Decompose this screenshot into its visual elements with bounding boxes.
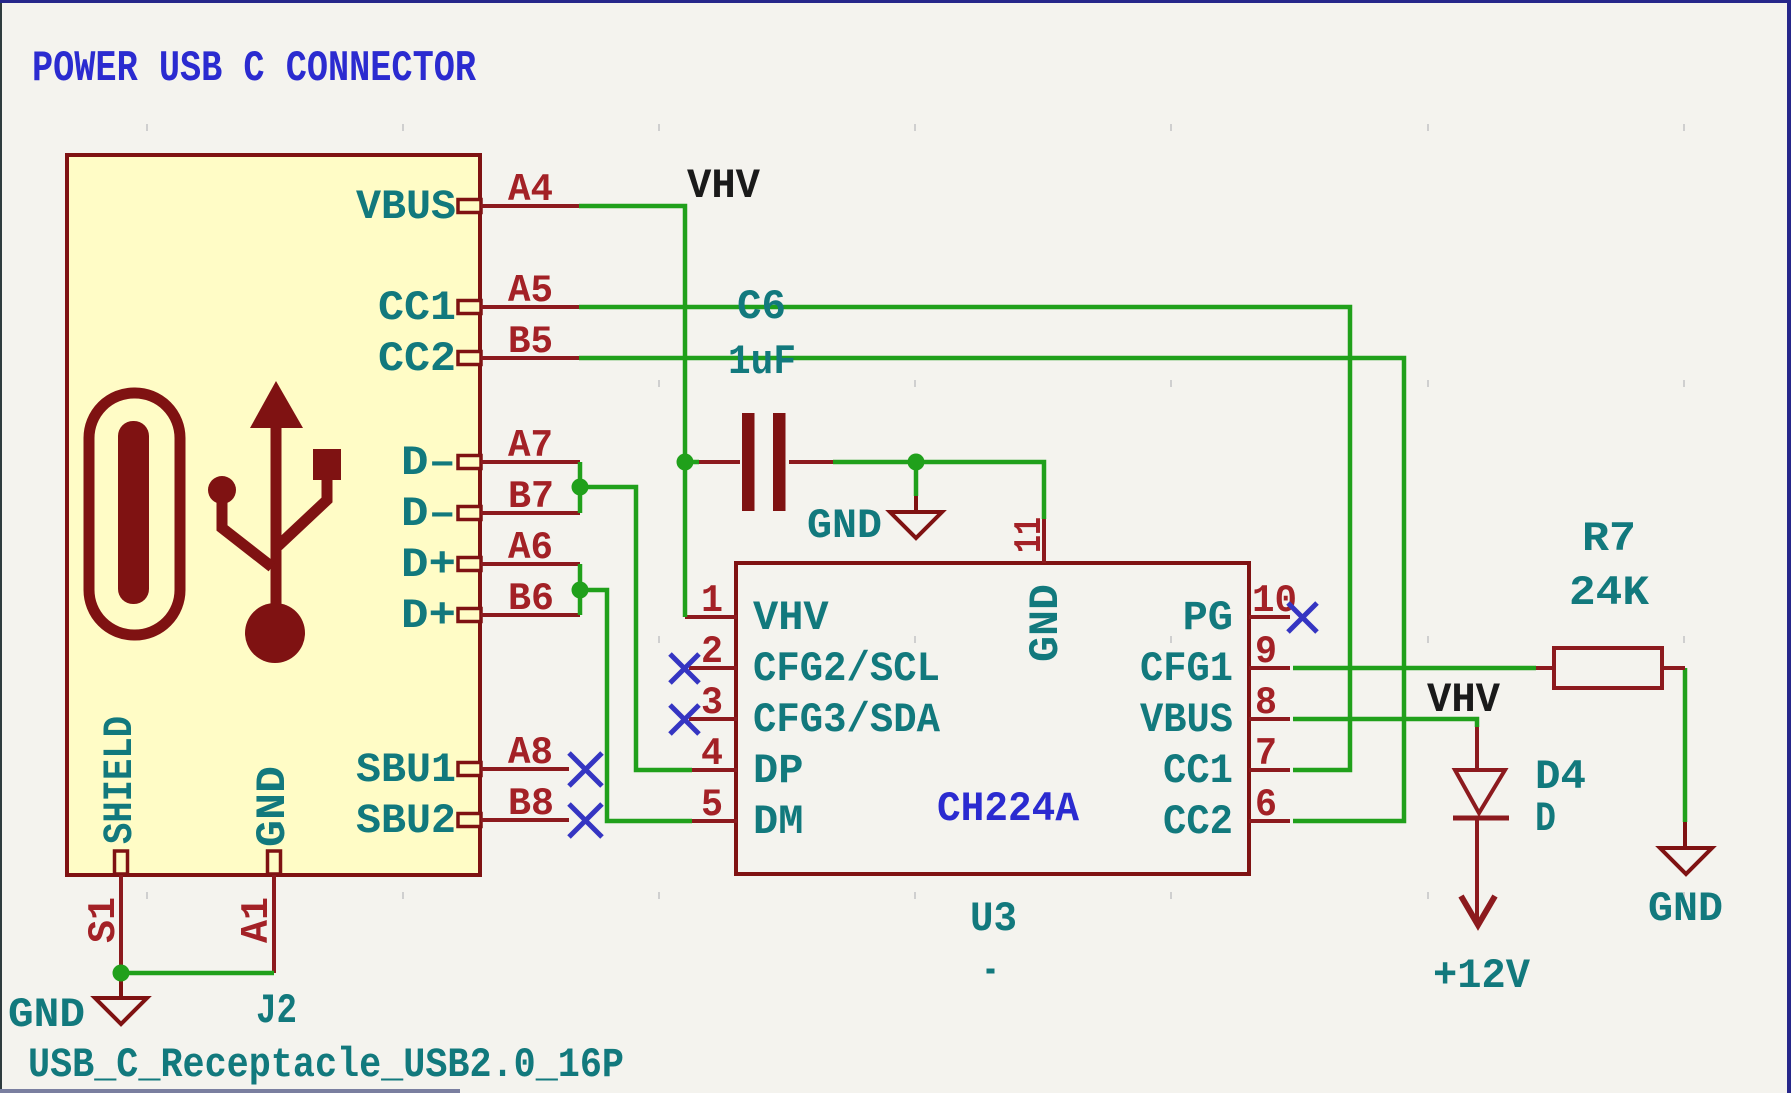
svg-text:VBUS: VBUS xyxy=(356,183,456,231)
svg-text:10: 10 xyxy=(1252,579,1297,623)
J2 pin A7 D- xyxy=(481,460,580,464)
no-connect X SBU2 xyxy=(569,804,602,837)
svg-text:CC1: CC1 xyxy=(378,284,456,332)
no-connect X pin3 xyxy=(670,705,699,734)
svg-text:A5: A5 xyxy=(508,269,553,313)
USB logo xyxy=(89,381,341,663)
U3 pin 1 VHV xyxy=(685,615,737,619)
grid marks xyxy=(146,124,1685,899)
svg-text:CC2: CC2 xyxy=(1163,798,1233,846)
svg-text:B7: B7 xyxy=(508,475,554,519)
capacitor C6 xyxy=(699,413,833,511)
wire D- pair link xyxy=(578,462,583,513)
sheet border right xyxy=(1787,0,1791,1093)
svg-text:C6: C6 xyxy=(737,283,786,331)
resistor R7 xyxy=(1536,648,1685,688)
U3 pin 2 CFG2/SCL xyxy=(689,666,737,670)
+12V power arrow xyxy=(1461,896,1495,925)
U3 pin 8 VBUS xyxy=(1249,717,1290,721)
svg-text:SBU2: SBU2 xyxy=(356,797,456,845)
svg-text:B6: B6 xyxy=(508,577,554,621)
J2 pin pad square B7 xyxy=(458,507,481,520)
J2 pin A6 D+ xyxy=(481,562,580,566)
svg-text:6: 6 xyxy=(1255,783,1277,827)
svg-text:D: D xyxy=(1535,795,1556,843)
svg-text:DP: DP xyxy=(753,747,803,795)
svg-text:GND: GND xyxy=(8,991,85,1039)
U3 pin 4 DP xyxy=(689,768,737,772)
J2 pin pad square A6 xyxy=(458,558,481,571)
svg-text:9: 9 xyxy=(1255,630,1277,674)
J2 pin pad square B5 xyxy=(458,352,481,365)
wire R7 to GND xyxy=(1683,668,1688,822)
J2 pin B8 SBU2 xyxy=(481,818,569,822)
svg-text:U3: U3 xyxy=(970,895,1017,943)
svg-text:GND: GND xyxy=(1022,584,1070,662)
svg-text:J2: J2 xyxy=(256,987,297,1035)
svg-text:D4: D4 xyxy=(1535,753,1586,801)
svg-text:CFG1: CFG1 xyxy=(1140,645,1233,693)
U3 pin 5 DM xyxy=(689,819,737,823)
wire VBUS pin8 to D4 xyxy=(1293,719,1477,727)
svg-text:A6: A6 xyxy=(508,526,553,570)
svg-text:A1: A1 xyxy=(235,897,279,943)
svg-text:5: 5 xyxy=(701,783,723,827)
junction dot D- xyxy=(572,479,589,496)
wire D+ pair link xyxy=(578,564,583,615)
svg-text:CFG2/SCL: CFG2/SCL xyxy=(753,645,940,693)
U3 pin 6 CC2 xyxy=(1249,819,1290,823)
J2 pin pad square S1 xyxy=(115,851,128,874)
svg-text:SBU1: SBU1 xyxy=(356,746,456,794)
svg-text:S1: S1 xyxy=(82,897,126,943)
IC U3 body xyxy=(736,563,1249,874)
ground symbol right xyxy=(1660,822,1712,874)
svg-text:CH224A: CH224A xyxy=(937,785,1080,833)
junction dot C6/GND xyxy=(908,454,925,471)
svg-text:D–: D– xyxy=(401,490,456,538)
sheet border bottom xyxy=(0,1089,460,1093)
J2 pin pad square B6 xyxy=(458,609,481,622)
U3 pin 10 PG xyxy=(1249,615,1290,619)
svg-text:CC1: CC1 xyxy=(1163,747,1233,795)
U3 pin 7 CC1 xyxy=(1249,768,1290,772)
svg-text:B5: B5 xyxy=(508,320,553,364)
svg-text:8: 8 xyxy=(1255,681,1277,725)
ground symbol at J2 shield xyxy=(95,973,147,1024)
wire VBUS A4 to VHV rail xyxy=(579,206,685,617)
svg-text:B8: B8 xyxy=(508,782,554,826)
svg-text:GND: GND xyxy=(249,766,297,847)
svg-text:POWER USB C CONNECTOR: POWER USB C CONNECTOR xyxy=(32,44,476,94)
svg-text:2: 2 xyxy=(701,630,723,674)
svg-text:24K: 24K xyxy=(1569,569,1650,617)
svg-text:7: 7 xyxy=(1255,732,1277,776)
J2 pin A5 CC1 xyxy=(481,305,579,309)
no-connect X pin10 xyxy=(1288,603,1317,632)
svg-text:11: 11 xyxy=(1008,517,1052,553)
J2 pin pad square A5 xyxy=(458,301,481,314)
svg-text:R7: R7 xyxy=(1582,515,1636,563)
svg-text:1: 1 xyxy=(701,579,723,623)
svg-text:D–: D– xyxy=(401,439,456,487)
svg-text:A7: A7 xyxy=(508,424,553,468)
svg-text:D+: D+ xyxy=(401,541,456,589)
junction dot shield gnd xyxy=(113,965,130,982)
J2 pin B6 D+ xyxy=(481,613,580,617)
svg-text:A8: A8 xyxy=(508,731,553,775)
wire C6 net right to GND and pin11 xyxy=(833,462,1044,519)
diode D4 xyxy=(1453,727,1509,922)
J2 pin A1 GND xyxy=(272,875,276,973)
J2 pin B5 CC2 xyxy=(481,356,579,360)
U3 pin 3 CFG3/SDA xyxy=(689,717,737,721)
svg-text:-: - xyxy=(982,947,999,995)
svg-text:VHV: VHV xyxy=(1427,676,1501,724)
svg-text:+12V: +12V xyxy=(1433,952,1531,1000)
U3 pin 9 CFG1 xyxy=(1249,666,1290,670)
no-connect X pin2 xyxy=(670,654,699,683)
svg-text:4: 4 xyxy=(701,732,723,776)
svg-text:D+: D+ xyxy=(401,592,456,640)
connector J2 body xyxy=(67,155,480,875)
wire CFG1 pin9 to R7 xyxy=(1293,666,1536,671)
no-connect X SBU1 xyxy=(569,753,602,786)
svg-text:A4: A4 xyxy=(508,168,553,212)
svg-text:VBUS: VBUS xyxy=(1140,696,1233,744)
svg-text:DM: DM xyxy=(753,798,803,846)
svg-text:1uF: 1uF xyxy=(728,338,796,386)
ground symbol at C6 xyxy=(890,496,942,538)
J2 pin pad square A7 xyxy=(458,456,481,469)
svg-text:CFG3/SDA: CFG3/SDA xyxy=(753,696,941,744)
wire D+ to DM xyxy=(580,590,692,821)
wire C6 net left xyxy=(685,460,699,465)
svg-text:GND: GND xyxy=(807,502,882,550)
wire GND drop at junction xyxy=(914,462,919,496)
wire D- to DP xyxy=(580,487,692,770)
junction dot VHV/C6 xyxy=(677,454,694,471)
wire shield to A1 gnd xyxy=(121,971,274,976)
svg-text:CC2: CC2 xyxy=(378,335,456,383)
svg-text:VHV: VHV xyxy=(687,162,761,210)
sheet border left xyxy=(0,3,2,1089)
J2 pin pad square A8 xyxy=(458,763,481,776)
U3 pin 11 GND xyxy=(1042,517,1046,563)
svg-text:PG: PG xyxy=(1183,594,1233,642)
J2 pin S1 SHIELD xyxy=(119,875,123,973)
svg-text:GND: GND xyxy=(1648,885,1723,933)
svg-text:3: 3 xyxy=(701,681,723,725)
wire CC2 B5 to U3 pin6 xyxy=(579,358,1404,821)
J2 pin B7 D- xyxy=(481,511,580,515)
J2 pin pad square A1 xyxy=(268,851,281,874)
J2 pin pad square A4 xyxy=(458,200,481,213)
J2 pin A4 VBUS xyxy=(481,204,579,208)
J2 pin A8 SBU1 xyxy=(481,767,569,771)
J2 pin pad square B8 xyxy=(458,814,481,827)
junction dot D+ xyxy=(572,582,589,599)
sheet border top xyxy=(0,0,1791,3)
svg-text:SHIELD: SHIELD xyxy=(96,716,144,844)
svg-text:USB_C_Receptacle_USB2.0_16P: USB_C_Receptacle_USB2.0_16P xyxy=(28,1041,624,1089)
wire CC1 A5 to U3 pin7 xyxy=(579,307,1350,770)
svg-text:VHV: VHV xyxy=(753,594,829,642)
